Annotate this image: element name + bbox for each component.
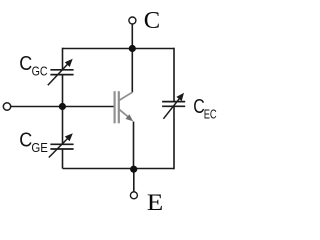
wire top rail bbox=[63, 48, 175, 50]
svg-text:C: C bbox=[19, 129, 32, 151]
wire left rail upper segment bbox=[62, 48, 64, 70]
terminal E circle bbox=[130, 192, 137, 199]
wire right rail lower segment bbox=[173, 106, 175, 169]
node junction gate bbox=[59, 103, 66, 110]
wire emitter to bottom junction bbox=[133, 122, 135, 169]
label CGE bbox=[19, 129, 48, 155]
svg-text:GC: GC bbox=[32, 64, 48, 79]
wire collector terminal lead bbox=[131, 24, 133, 48]
capacitor CEC bbox=[162, 93, 185, 119]
transistor Q1 bar bbox=[115, 91, 119, 123]
terminal gate circle bbox=[3, 103, 10, 110]
wire bottom rail bbox=[63, 168, 175, 170]
svg-text:C: C bbox=[144, 7, 160, 34]
node junction E bbox=[130, 166, 137, 173]
capacitor CGE bbox=[49, 133, 74, 157]
transistor Q1 emitter stroke with arrow bbox=[119, 109, 133, 121]
capacitor CGC bbox=[48, 59, 74, 86]
wire right rail upper segment bbox=[173, 48, 175, 102]
wire collector to transistor bbox=[131, 49, 133, 93]
wire emitter terminal lead bbox=[133, 169, 135, 192]
wire left rail middle segment bbox=[62, 75, 64, 145]
wire left rail lower segment bbox=[62, 149, 64, 169]
terminal C circle bbox=[129, 17, 136, 24]
svg-text:GE: GE bbox=[31, 140, 48, 155]
svg-text:EC: EC bbox=[204, 107, 217, 122]
transistor Q1 collector stroke bbox=[119, 92, 132, 100]
wire gate lead bbox=[11, 106, 114, 108]
node junction C bbox=[129, 45, 136, 52]
svg-text:C: C bbox=[19, 53, 32, 75]
svg-text:E: E bbox=[147, 190, 164, 213]
label CEC bbox=[193, 96, 216, 121]
label CGC bbox=[19, 53, 47, 79]
